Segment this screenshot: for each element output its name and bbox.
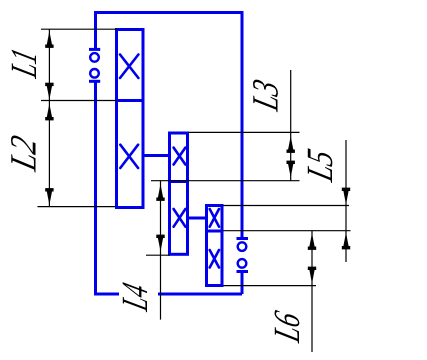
svg-text:L5: L5 bbox=[300, 145, 341, 186]
svg-text:L1: L1 bbox=[3, 44, 44, 82]
svg-text:L3: L3 bbox=[245, 75, 286, 115]
svg-text:L2: L2 bbox=[3, 132, 44, 176]
svg-text:L6: L6 bbox=[266, 307, 307, 346]
